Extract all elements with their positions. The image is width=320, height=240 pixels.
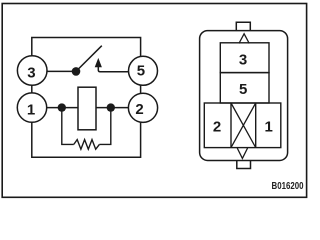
wire terminal 5 to terminal 2: [140, 70, 142, 108]
cavity row pins 2 and 1: [204, 103, 280, 148]
border frame: [2, 4, 306, 198]
cavity box pin 5: [220, 73, 269, 103]
svg-text:1: 1: [27, 102, 35, 119]
cavity box pin 3: [220, 43, 269, 73]
wire bottom bus (node 1 to node 2): [32, 108, 141, 157]
svg-text:5: 5: [239, 81, 247, 98]
terminal circle 1: [17, 93, 46, 122]
wire arrow stem to terminal 5: [98, 67, 132, 72]
terminal circle 3: [17, 56, 47, 86]
resistor R1 zigzag: [74, 140, 100, 150]
connector top tab: [236, 22, 250, 30]
index mark caret up: [239, 34, 249, 44]
switch blade SW1: [76, 46, 102, 72]
svg-text:B016200: B016200: [272, 181, 304, 192]
junction dot switch contact: [72, 67, 81, 76]
relay coil L1: [78, 87, 96, 130]
cavity divider right: [255, 103, 257, 148]
svg-text:1: 1: [265, 119, 273, 136]
terminal circle 2: [128, 93, 157, 122]
junction dot coil left: [58, 103, 66, 111]
connector bottom tab: [237, 161, 251, 169]
svg-text:3: 3: [27, 64, 35, 81]
blocked cavity X mark: [231, 103, 256, 148]
index mark caret down: [237, 148, 247, 158]
svg-text:2: 2: [213, 119, 221, 136]
cavity divider left: [230, 103, 232, 148]
svg-text:3: 3: [239, 51, 247, 68]
resistor branch wires: [62, 108, 111, 145]
wire terminal 3 to terminal 1: [31, 70, 33, 108]
junction dot coil right: [107, 103, 115, 111]
connector body outline: [200, 31, 288, 161]
arrow actuation direction: [95, 58, 102, 67]
terminal circle 5: [129, 56, 158, 85]
wire terminal 3 to switch contact: [32, 70, 76, 72]
wire coil row (terminal 1 to terminal 2): [32, 107, 140, 109]
svg-text:5: 5: [137, 63, 145, 80]
svg-text:2: 2: [135, 101, 143, 118]
wire top bus (node 3 to node 5): [32, 38, 141, 71]
